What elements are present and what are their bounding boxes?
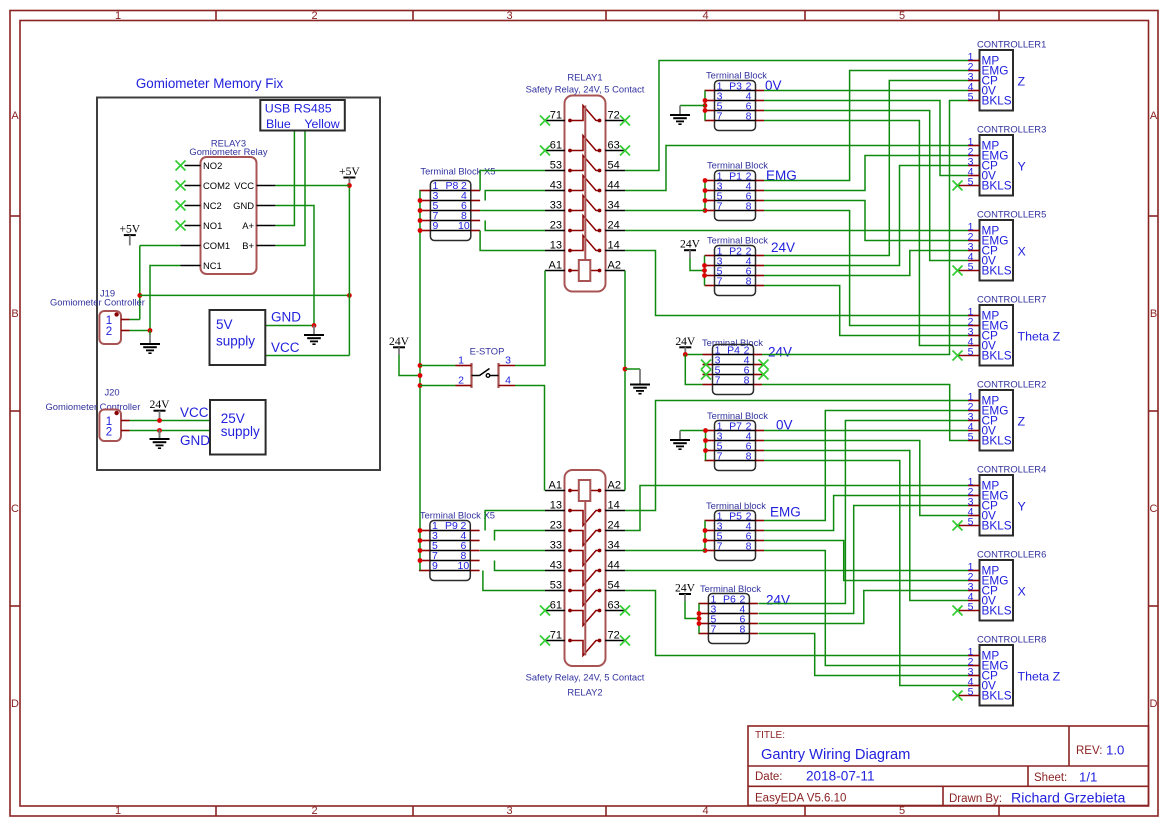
- P3 pin row 3/4: [715, 100, 756, 102]
- wire RELAY1.24 to CONTROLLER5 MP: [625, 230, 968, 232]
- terminal block P8 (X5): [419, 166, 495, 241]
- wire P5 left bus: [704, 521, 706, 551]
- E-STOP pin 1: [456, 365, 472, 367]
- junction: [157, 428, 162, 433]
- J20 pin 1: [121, 420, 130, 422]
- RELAY3 pin A+: [257, 225, 276, 227]
- svg-text:3: 3: [505, 355, 511, 367]
- RELAY1 contact 53/54: [545, 170, 565, 172]
- wire P7.8 to CONTROLLER8 0V: [764, 461, 968, 686]
- RELAY1 coil A1/A2: [545, 270, 565, 272]
- P8 pin row 5/6: [430, 210, 470, 212]
- RELAY1 contact 61/63: [545, 150, 565, 152]
- junction: [418, 528, 423, 533]
- wire RELAY1.44 to CONTROLLER3 MP: [625, 146, 968, 191]
- CONTROLLER1 pin 5 BKLS: [968, 100, 980, 102]
- svg-text:P5: P5: [729, 511, 742, 523]
- P9 pin row 9/10: [430, 570, 470, 572]
- svg-text:A1: A1: [549, 260, 562, 272]
- svg-text:C: C: [11, 503, 19, 515]
- svg-text:B+: B+: [242, 240, 254, 251]
- junction: [418, 538, 423, 543]
- P4 pin row 3/4: [713, 364, 754, 366]
- svg-text:C: C: [1150, 503, 1158, 515]
- svg-text:P8: P8: [445, 180, 458, 192]
- wire 24V to P2: [690, 258, 705, 271]
- controller CONTROLLER6 (X axis): [953, 549, 1047, 621]
- terminal block P6: [698, 583, 790, 644]
- P4 pin row 5/6: [713, 374, 754, 376]
- svg-text:Theta Z: Theta Z: [1018, 670, 1061, 684]
- P7 pin row 3/4: [715, 440, 756, 442]
- wire P7 left bus: [705, 431, 707, 461]
- wire J19.2: [130, 330, 151, 332]
- CONTROLLER3 pin 4 0V: [968, 175, 980, 177]
- RELAY3 pin NO1: [185, 225, 201, 227]
- svg-text:61: 61: [550, 600, 562, 612]
- controller CONTROLLER2 (Z axis): [968, 379, 1047, 451]
- wire P3.6 to CONTROLLER5 0V: [764, 111, 968, 261]
- CONTROLLER3 pin 3 CP: [968, 165, 980, 167]
- svg-text:Date:: Date:: [755, 771, 783, 783]
- svg-text:24V: 24V: [680, 238, 701, 251]
- svg-text:5: 5: [968, 686, 974, 698]
- svg-text:BKLS: BKLS: [982, 349, 1012, 363]
- junction: [418, 218, 423, 223]
- wire J19 row to +5V right: [140, 294, 350, 296]
- no-connect flag on RELAY3 NO2: [176, 161, 186, 171]
- svg-text:D: D: [11, 698, 19, 710]
- P1 pin row 5/6: [715, 200, 756, 202]
- CONTROLLER4 pin 2 EMG: [968, 495, 980, 497]
- RELAY2 contact 43/44: [545, 570, 565, 572]
- svg-text:4: 4: [702, 10, 708, 22]
- svg-text:COM2: COM2: [203, 180, 230, 191]
- power flag 24V (P2): [680, 238, 701, 258]
- P5 pin row 7/8: [715, 550, 756, 552]
- svg-text:10: 10: [458, 220, 470, 232]
- RELAY3 pin NO2: [185, 165, 201, 167]
- junction: [623, 367, 628, 372]
- switch E-STOP: [456, 346, 516, 389]
- svg-text:Terminal Block X5: Terminal Block X5: [420, 510, 495, 521]
- wire X5 bus vertical: [419, 191, 421, 571]
- CONTROLLER5 pin 2 EMG: [968, 240, 980, 242]
- svg-text:1: 1: [458, 355, 464, 367]
- controller CONTROLLER1 (Z axis): [968, 39, 1047, 111]
- svg-text:NC2: NC2: [203, 200, 222, 211]
- wire P5.8 to CONTROLLER8 EMG: [764, 551, 968, 666]
- junction: [703, 448, 708, 453]
- svg-text:24V: 24V: [150, 398, 171, 411]
- svg-text:COM1: COM1: [203, 240, 230, 251]
- svg-text:13: 13: [550, 500, 562, 512]
- wire 24V to P4.1: [685, 354, 702, 356]
- wire P6.4 to CONTROLLER4 CP: [758, 506, 968, 614]
- power flag 24V (P4): [675, 335, 696, 355]
- RELAY2 contact 53/54: [545, 590, 565, 592]
- terminal block P7: [705, 410, 793, 471]
- junction: [703, 103, 708, 108]
- no-connect flag on RELAY3 NC2: [176, 201, 186, 211]
- P8 pin row 1/2: [430, 190, 470, 192]
- P2 pin row 7/8: [715, 285, 756, 287]
- svg-text:72: 72: [608, 110, 620, 122]
- terminal block P2: [705, 235, 796, 296]
- junction: [697, 611, 702, 616]
- svg-text:P9: P9: [445, 520, 458, 532]
- junction: [418, 228, 423, 233]
- P4 pin row 1/2: [713, 354, 754, 356]
- CONTROLLER1 pin 2 EMG: [968, 70, 980, 72]
- P2 pin row 3/4: [715, 265, 756, 267]
- P5 pin row 1/2: [715, 520, 756, 522]
- P9 pin row 7/8: [430, 560, 470, 562]
- J19 pin 1: [121, 319, 130, 321]
- svg-text:Gantry Wiring Diagram: Gantry Wiring Diagram: [761, 747, 910, 763]
- svg-text:P6: P6: [723, 594, 736, 606]
- relay RELAY1 (Safety Relay, 24V, 5 Contact): [545, 96, 625, 292]
- wire P1.8 to CONTROLLER7 EMG: [764, 211, 968, 326]
- CONTROLLER8 pin 2 EMG: [968, 665, 980, 667]
- junction: [347, 293, 352, 298]
- junction: [703, 528, 708, 533]
- svg-text:Yellow: Yellow: [304, 117, 339, 131]
- CONTROLLER6 pin 3 CP: [968, 590, 980, 592]
- svg-text:Sheet:: Sheet:: [1034, 772, 1067, 784]
- svg-text:supply: supply: [216, 334, 255, 349]
- wire RELAY3 A+ to USB: [275, 132, 294, 226]
- junction: [148, 328, 153, 333]
- svg-text:53: 53: [550, 160, 562, 172]
- svg-text:14: 14: [608, 240, 620, 252]
- svg-text:P2: P2: [729, 246, 742, 258]
- RELAY1 contact 33/34: [545, 210, 565, 212]
- svg-text:7: 7: [717, 541, 723, 553]
- wire P3 left bus: [704, 91, 706, 121]
- svg-text:A1: A1: [549, 480, 562, 492]
- wire P9.2 to RELAY2.13: [485, 511, 545, 531]
- svg-text:1.0: 1.0: [1106, 743, 1124, 758]
- svg-text:8: 8: [744, 375, 750, 387]
- CONTROLLER3 pin 5 BKLS: [958, 185, 980, 187]
- power flag 24V (E-STOP feed): [389, 335, 410, 355]
- svg-text:5: 5: [899, 10, 905, 22]
- CONTROLLER8 pin 4 0V: [968, 685, 980, 687]
- svg-text:A2: A2: [608, 480, 621, 492]
- wire P6 left bus: [698, 604, 700, 634]
- wire RELAY1.54 to CONTROLLER1 MP: [625, 61, 968, 171]
- junction: [347, 183, 352, 188]
- wire RELAY1.14 to CONTROLLER7 MP: [625, 251, 968, 316]
- svg-text:24V: 24V: [675, 582, 696, 595]
- CONTROLLER7 pin 5 BKLS: [958, 355, 980, 357]
- P7 pin row 7/8: [715, 460, 756, 462]
- svg-text:44: 44: [608, 180, 620, 192]
- junction: [312, 323, 317, 328]
- svg-text:Z: Z: [1018, 415, 1026, 429]
- controller CONTROLLER4 (Y axis): [953, 464, 1047, 536]
- svg-text:+5V: +5V: [119, 223, 140, 236]
- wire P2 left bus: [704, 256, 706, 286]
- svg-text:8: 8: [746, 451, 752, 463]
- svg-text:3: 3: [506, 805, 512, 817]
- svg-text:BKLS: BKLS: [982, 604, 1012, 618]
- wire P6.6 to CONTROLLER6 CP: [758, 591, 968, 624]
- CONTROLLER8 pin 3 CP: [968, 675, 980, 677]
- svg-text:Terminal Block: Terminal Block: [700, 583, 761, 594]
- svg-text:Y: Y: [1018, 500, 1026, 514]
- svg-text:7: 7: [717, 276, 723, 288]
- wire P5.6 to CONTROLLER6 EMG: [764, 541, 968, 581]
- junction: [137, 293, 142, 298]
- svg-text:Blue: Blue: [266, 117, 291, 131]
- svg-text:Terminal Block: Terminal Block: [706, 70, 767, 81]
- CONTROLLER2 pin 4 0V: [968, 430, 980, 432]
- P3 pin row 1/2: [715, 90, 756, 92]
- RELAY2 actuator linkage: [584, 501, 586, 656]
- title block: [748, 726, 1149, 807]
- P6 pin row 7/8: [708, 633, 749, 635]
- wire P6.8 to CONTROLLER8 CP: [758, 634, 968, 676]
- svg-text:VCC: VCC: [271, 340, 300, 355]
- wire 24V to X5 bus: [399, 355, 420, 376]
- svg-text:NC1: NC1: [203, 260, 222, 271]
- svg-text:Terminal Block: Terminal Block: [707, 160, 768, 171]
- svg-text:TITLE:: TITLE:: [755, 730, 785, 741]
- CONTROLLER1 pin 4 0V: [968, 90, 980, 92]
- P3 pin row 5/6: [715, 110, 756, 112]
- RELAY1 contact 23/24: [545, 230, 565, 232]
- wire P8.6 to RELAY1.33: [480, 210, 545, 212]
- svg-text:Drawn By:: Drawn By:: [949, 793, 1002, 805]
- wire P8.2 to RELAY1.53: [480, 171, 545, 191]
- svg-text:71: 71: [550, 110, 562, 122]
- svg-text:24V: 24V: [675, 335, 696, 348]
- svg-text:8: 8: [746, 111, 752, 123]
- svg-text:4: 4: [702, 805, 708, 817]
- P7 pin row 1/2: [715, 430, 756, 432]
- ground (5V supply): [304, 326, 324, 345]
- RELAY2 contact 33/34: [545, 550, 565, 552]
- wire VCC net vertical: [348, 186, 350, 356]
- svg-text:5: 5: [968, 346, 974, 358]
- P1 pin row 3/4: [715, 190, 756, 192]
- CONTROLLER4 pin 1 MP: [968, 485, 980, 487]
- wire J20.1 VCC: [130, 420, 211, 422]
- svg-text:VCC: VCC: [234, 180, 254, 191]
- svg-text:X: X: [1018, 245, 1026, 259]
- svg-text:8: 8: [746, 201, 752, 213]
- power flag +5V (right, VCC net): [339, 165, 360, 186]
- wire P4.8 to CONTROLLER2 BKLS: [762, 385, 968, 441]
- no-connect flag CONTROLLER6 BKLS: [953, 606, 963, 616]
- svg-text:24V: 24V: [768, 345, 792, 360]
- P3 pin row 7/8: [715, 120, 756, 122]
- E-STOP pin 2: [456, 385, 472, 387]
- junction: [703, 178, 708, 183]
- svg-text:24: 24: [608, 220, 620, 232]
- svg-text:43: 43: [550, 180, 562, 192]
- svg-text:A: A: [1150, 110, 1158, 122]
- wire P1.6 to CONTROLLER5 EMG: [764, 201, 968, 241]
- E-STOP pin 4: [499, 385, 516, 387]
- svg-text:J20: J20: [104, 387, 119, 398]
- svg-text:2: 2: [311, 805, 317, 817]
- junction: [702, 273, 707, 278]
- terminal block P5: [705, 500, 801, 561]
- CONTROLLER1 pin 1 MP: [968, 60, 980, 62]
- svg-text:5: 5: [968, 176, 974, 188]
- CONTROLLER5 pin 1 MP: [968, 230, 980, 232]
- junction: [418, 373, 423, 378]
- svg-text:+5V: +5V: [339, 165, 360, 178]
- wire P4.2 to CONTROLLER1 BKLS: [762, 101, 968, 355]
- svg-text:CONTROLLER3: CONTROLLER3: [977, 124, 1046, 135]
- no-connect flags RELAY1: [540, 116, 550, 126]
- svg-text:BKLS: BKLS: [982, 179, 1012, 193]
- no-connect flag CONTROLLER5 BKLS: [953, 266, 963, 276]
- svg-text:2: 2: [458, 375, 464, 387]
- wire P2.6 to CONTROLLER5 CP: [764, 251, 968, 276]
- svg-text:NO1: NO1: [203, 220, 222, 231]
- wire P9.10 to RELAY2.53: [483, 571, 545, 591]
- P9 pin row 3/4: [430, 540, 470, 542]
- CONTROLLER2 pin 5 BKLS: [968, 440, 980, 442]
- wire P7.4 to CONTROLLER4 0V: [764, 441, 968, 516]
- wire COM1 net: [140, 245, 181, 247]
- svg-text:24: 24: [608, 520, 620, 532]
- wire J20.2 GND: [130, 430, 211, 432]
- power flag 24V (P6): [675, 582, 696, 602]
- RELAY3 pin VCC: [257, 185, 276, 187]
- junction: [703, 208, 708, 213]
- svg-text:33: 33: [550, 540, 562, 552]
- svg-text:Terminal Block: Terminal Block: [707, 235, 768, 246]
- wire P2.4 to CONTROLLER3 CP: [764, 166, 968, 266]
- svg-text:BKLS: BKLS: [982, 434, 1012, 448]
- svg-text:GND: GND: [233, 200, 254, 211]
- svg-text:7: 7: [717, 111, 723, 123]
- wire P9.8 to RELAY2.43: [495, 561, 546, 571]
- wire P7.6 to CONTROLLER6 0V: [764, 451, 968, 601]
- CONTROLLER6 pin 1 MP: [968, 570, 980, 572]
- svg-text:9: 9: [432, 560, 438, 572]
- E-STOP pin 3: [499, 365, 516, 367]
- svg-text:D: D: [1150, 698, 1158, 710]
- svg-text:P3: P3: [729, 81, 742, 93]
- CONTROLLER7 pin 3 CP: [968, 335, 980, 337]
- junction: [697, 621, 702, 626]
- RELAY2 contact 13/14: [545, 510, 565, 512]
- svg-text:BKLS: BKLS: [982, 519, 1012, 533]
- svg-text:5: 5: [968, 601, 974, 613]
- RELAY1 contact 71/72: [545, 120, 565, 122]
- svg-text:Richard Grzebieta: Richard Grzebieta: [1011, 791, 1125, 807]
- svg-text:24V: 24V: [389, 335, 410, 348]
- CONTROLLER5 pin 4 0V: [968, 260, 980, 262]
- wire 24V to P6: [685, 601, 699, 619]
- wire RELAY1.A2 to RELAY2.A2: [624, 271, 626, 491]
- CONTROLLER6 pin 4 0V: [968, 600, 980, 602]
- svg-text:CONTROLLER1: CONTROLLER1: [977, 39, 1046, 50]
- svg-text:7: 7: [717, 451, 723, 463]
- svg-text:24V: 24V: [771, 240, 795, 255]
- RELAY3 pin B+: [257, 245, 276, 247]
- P6 pin row 1/2: [708, 603, 749, 605]
- wire RELAY2.34 to P5: [625, 550, 705, 552]
- Gomiometer Memory Fix group box: [97, 76, 380, 470]
- USB RS485 module: [260, 100, 345, 131]
- svg-text:Terminal block: Terminal block: [706, 500, 766, 511]
- no-connect flag on RELAY3 COM2: [176, 181, 186, 191]
- svg-text:8: 8: [746, 276, 752, 288]
- CONTROLLER2 pin 1 MP: [968, 400, 980, 402]
- wire P3.4 to CONTROLLER3 0V: [764, 101, 968, 176]
- wire RELAY3 GND down to 5V supply: [275, 206, 314, 326]
- junction: [703, 188, 708, 193]
- svg-text:GND: GND: [271, 310, 301, 325]
- svg-text:CONTROLLER5: CONTROLLER5: [977, 209, 1046, 220]
- J20 pin 2: [121, 430, 130, 432]
- wire P5.2 to CONTROLLER2 EMG: [764, 411, 968, 521]
- svg-text:53: 53: [550, 580, 562, 592]
- svg-text:REV:: REV:: [1076, 745, 1102, 757]
- svg-text:CONTROLLER7: CONTROLLER7: [977, 294, 1046, 305]
- junction: [418, 383, 423, 388]
- wire P9.4 to RELAY2.23: [495, 531, 546, 541]
- svg-text:23: 23: [550, 520, 562, 532]
- no-connect flag CONTROLLER8 BKLS: [953, 691, 963, 701]
- controller CONTROLLER8 (Theta Z axis): [953, 634, 1061, 706]
- svg-text:34: 34: [608, 540, 620, 552]
- wire E-STOP.4 to RELAY2.A1: [515, 386, 545, 491]
- junction: [703, 538, 708, 543]
- svg-text:63: 63: [608, 140, 620, 152]
- P5 pin row 3/4: [715, 530, 756, 532]
- ground (P3 0V): [670, 106, 690, 125]
- wire P2.2 to CONTROLLER1 CP: [764, 81, 968, 256]
- svg-text:13: 13: [550, 240, 562, 252]
- wire E-STOP.3 to RELAY1.A1: [515, 271, 545, 366]
- svg-text:2018-07-11: 2018-07-11: [806, 769, 875, 784]
- ground (J19): [140, 335, 160, 354]
- svg-text:BKLS: BKLS: [982, 689, 1012, 703]
- junction: [418, 198, 423, 203]
- svg-text:RELAY2: RELAY2: [567, 687, 602, 698]
- P2 pin row 1/2: [715, 255, 756, 257]
- svg-text:54: 54: [608, 580, 620, 592]
- CONTROLLER4 pin 4 0V: [968, 515, 980, 517]
- junction: [703, 548, 708, 553]
- terminal block P4: [702, 337, 792, 395]
- svg-text:54: 54: [608, 160, 620, 172]
- P1 pin row 7/8: [715, 210, 756, 212]
- power flag +5V (left of RELAY3): [119, 223, 140, 246]
- svg-text:BKLS: BKLS: [982, 264, 1012, 278]
- svg-text:Gomiometer Memory Fix: Gomiometer Memory Fix: [136, 76, 284, 91]
- svg-text:2: 2: [311, 10, 317, 22]
- wire P6.2 to CONTROLLER2 CP: [758, 421, 968, 604]
- svg-text:61: 61: [550, 140, 562, 152]
- svg-text:Gomiometer Controller: Gomiometer Controller: [46, 401, 141, 412]
- P8 pin row 9/10: [430, 230, 470, 232]
- svg-text:34: 34: [608, 200, 620, 212]
- svg-text:8: 8: [739, 624, 745, 636]
- svg-text:P4: P4: [727, 345, 740, 357]
- svg-text:2: 2: [106, 326, 112, 338]
- junction: [418, 548, 423, 553]
